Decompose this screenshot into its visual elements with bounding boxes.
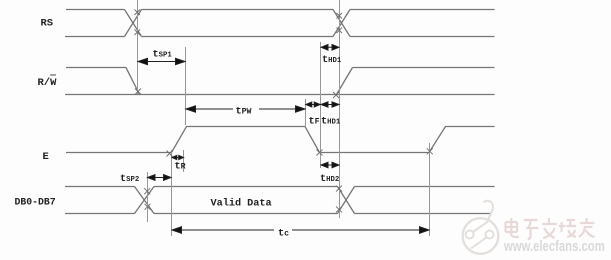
svg-text:R/W: R/W — [38, 77, 58, 89]
svg-text:tc: tc — [278, 228, 289, 239]
svg-text:tHD2: tHD2 — [320, 174, 339, 185]
svg-text:tR: tR — [175, 162, 186, 173]
svg-text:DB0-DB7: DB0-DB7 — [15, 196, 56, 207]
svg-text:RS: RS — [41, 17, 54, 29]
svg-text:tSP2: tSP2 — [120, 174, 139, 185]
svg-text:tPW: tPW — [236, 107, 252, 118]
svg-text:tHD1: tHD1 — [322, 55, 342, 66]
svg-text:E: E — [43, 151, 49, 163]
svg-text:tHD1: tHD1 — [321, 116, 341, 127]
svg-text:Valid Data: Valid Data — [211, 197, 272, 209]
svg-text:tSP1: tSP1 — [153, 50, 173, 61]
svg-text:www.elecfans.com: www.elecfans.com — [503, 238, 605, 255]
svg-text:tF: tF — [309, 116, 320, 127]
